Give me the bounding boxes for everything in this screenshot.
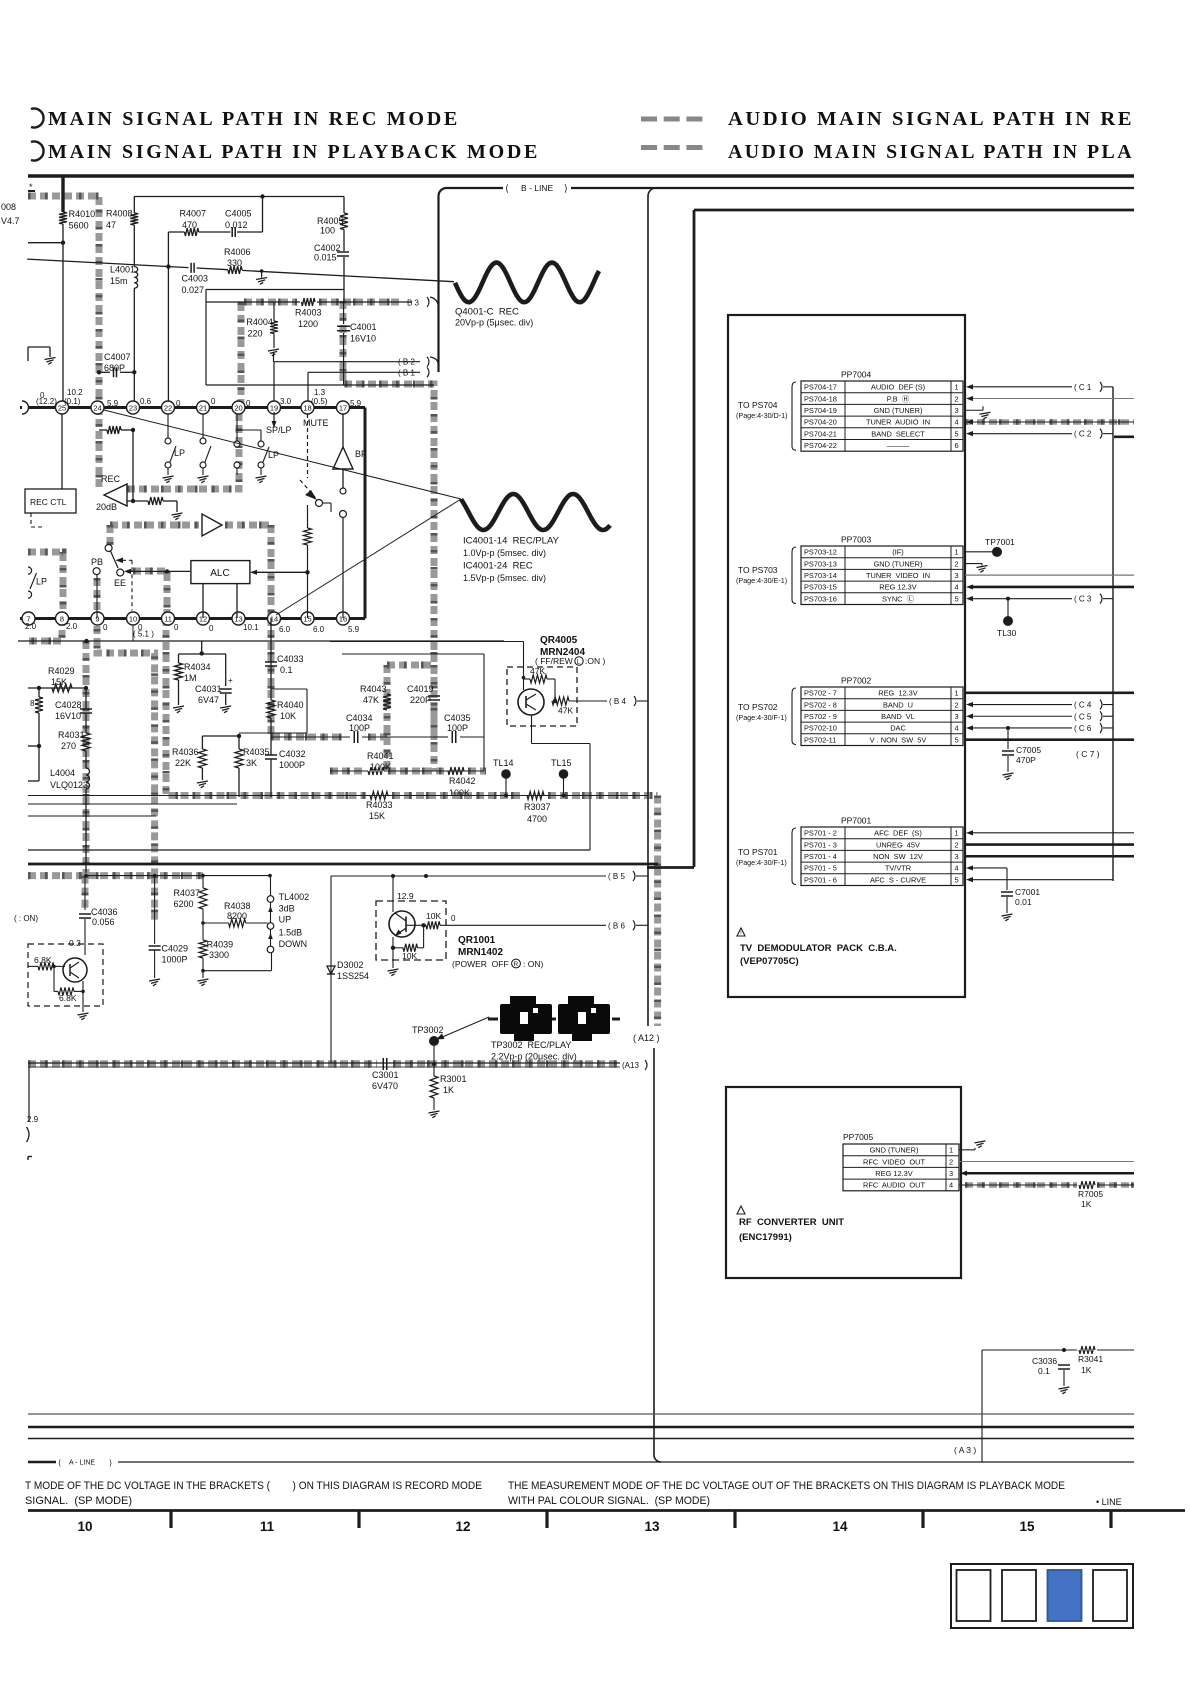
PP7003 pin5 wire to C3 (966, 596, 973, 601)
resistor R4038 (203, 922, 229, 924)
audio path halftone: EE wire to pin11 (133, 571, 167, 618)
PB circle and label (93, 568, 100, 575)
wire B5 (331, 875, 606, 877)
svg-text:1: 1 (955, 689, 959, 698)
wire mute switch to pin16 (342, 517, 344, 618)
svg-text:TL14: TL14 (493, 758, 514, 768)
svg-text:IC4001-24 REC: IC4001-24 REC (463, 561, 533, 572)
svg-text:B 3: B 3 (407, 299, 420, 308)
svg-text:0: 0 (174, 623, 179, 632)
QR1001 10K base resistor (406, 924, 426, 926)
PP7005 pin2 fine wire (959, 1161, 1134, 1163)
ALC box (191, 561, 250, 584)
svg-text:3: 3 (955, 852, 959, 861)
svg-text:( B 6: ( B 6 (608, 921, 625, 930)
svg-text:2.9: 2.9 (27, 1115, 39, 1124)
left column resistor R4029 (28, 687, 86, 689)
svg-text:PS702 - 9: PS702 - 9 (804, 712, 837, 721)
svg-text:( : ON): ( : ON) (14, 914, 38, 923)
svg-text:TP3002: TP3002 (412, 1025, 444, 1035)
svg-text:2.2Vp-p (20μsec. div): 2.2Vp-p (20μsec. div) (491, 1052, 577, 1062)
wire y232 R4007 C4005 row (168, 231, 184, 233)
svg-text:270: 270 (61, 741, 76, 751)
wire y1350 (982, 1349, 1077, 1351)
svg-text:SIGNAL. (SP MODE): SIGNAL. (SP MODE) (25, 1495, 132, 1507)
TL14 test point (501, 769, 511, 779)
PP7004 pin2 wire (966, 396, 973, 401)
svg-text:TP7001: TP7001 (985, 537, 1015, 547)
svg-text:PP7002: PP7002 (841, 676, 872, 686)
svg-text:2: 2 (949, 1157, 953, 1166)
svg-text:UP: UP (279, 914, 292, 924)
svg-text:5: 5 (955, 594, 959, 603)
resistor on pin15 column (307, 505, 309, 528)
svg-text:0.3: 0.3 (69, 938, 81, 948)
audio path halftone: pin14 column (268, 525, 275, 618)
svg-text:PS701 - 6: PS701 - 6 (804, 875, 837, 884)
svg-text:GND (TUNER): GND (TUNER) (870, 1146, 919, 1155)
svg-text:AUDIO MAIN SIGNAL PATH IN PLA: AUDIO MAIN SIGNAL PATH IN PLA (728, 142, 1134, 163)
IC4001 top pins (56, 401, 69, 414)
audio path halftone: A12 vertical (654, 796, 661, 1027)
svg-text:C4005: C4005 (225, 209, 252, 219)
ruler ticks (169, 1510, 172, 1528)
svg-text:10.1: 10.1 (243, 623, 259, 632)
svg-text:REC: REC (101, 474, 121, 484)
svg-text:L: L (577, 659, 581, 666)
resistor R4034 (175, 663, 183, 680)
svg-text:*: * (29, 182, 33, 192)
svg-text:IC4001-14 REC/PLAY: IC4001-14 REC/PLAY (463, 536, 560, 547)
D3002 diode (330, 876, 332, 1063)
svg-text:MAIN SIGNAL PATH IN REC MODE: MAIN SIGNAL PATH IN REC MODE (48, 109, 460, 130)
svg-text:⟨: ⟨ (505, 184, 509, 195)
svg-text:PS701 - 4: PS701 - 4 (804, 852, 837, 861)
svg-text:20: 20 (234, 404, 242, 413)
svg-text:PS704-17: PS704-17 (804, 383, 837, 392)
svg-text:C4002: C4002 (314, 243, 341, 253)
svg-text:C4001: C4001 (350, 322, 377, 332)
svg-text:1K: 1K (1081, 1199, 1092, 1209)
svg-text:R4041: R4041 (367, 751, 394, 761)
svg-text:16V10: 16V10 (350, 334, 376, 344)
svg-text:12.9: 12.9 (397, 891, 414, 901)
svg-text:C4031: C4031 (195, 684, 222, 694)
svg-text:REG 12.3V: REG 12.3V (879, 583, 916, 592)
svg-text:6: 6 (955, 441, 959, 450)
svg-text:0.1: 0.1 (280, 665, 293, 675)
svg-text:SYNC Ⓛ: SYNC Ⓛ (882, 594, 915, 603)
A-LINE label and rule (28, 1461, 56, 1464)
ground topleft near pin26 (28, 346, 50, 348)
svg-text:C4035: C4035 (444, 713, 471, 723)
svg-text:BAND U: BAND U (883, 700, 913, 709)
svg-text:PP7003: PP7003 (841, 535, 872, 545)
warning triangle RF (737, 1206, 745, 1214)
TP3002 test point (429, 1036, 439, 1046)
capacitor C4028 (80, 708, 92, 710)
svg-text:0: 0 (176, 399, 181, 408)
wire x239 up structure (271, 688, 307, 690)
resistor R4003 inline B3 (300, 296, 317, 307)
svg-text:C4032: C4032 (279, 749, 306, 759)
C3001 capacitor inline A13 (382, 1058, 384, 1070)
svg-text:PS704-18: PS704-18 (804, 394, 837, 403)
bracket B2 (274, 361, 421, 363)
RF converter box (726, 1087, 961, 1278)
svg-text:47K: 47K (558, 706, 573, 716)
audio path halftone: loop top (387, 662, 434, 669)
svg-text:330: 330 (227, 258, 242, 268)
svg-text:PP7004: PP7004 (841, 370, 872, 380)
audio path halftone: play switch stub (107, 525, 114, 545)
IC4001 bottom pins (22, 612, 35, 625)
wire y641 to QR4005 (330, 641, 524, 643)
capacitor C4001 on grey branch (343, 302, 345, 324)
svg-text:15K: 15K (369, 811, 385, 821)
svg-text:⟨: ⟨ (58, 1459, 61, 1468)
svg-text:C4029: C4029 (162, 944, 189, 954)
R7005 resistor inline (1079, 1181, 1095, 1189)
svg-text:PS703-14: PS703-14 (804, 571, 837, 580)
frame vertical v1 upper (648, 188, 656, 196)
svg-text:3: 3 (955, 406, 959, 415)
svg-text:(POWER OFF: (POWER OFF (452, 959, 509, 969)
svg-text:( A 3 ): ( A 3 ) (954, 1445, 976, 1455)
audio path halftone: pin24 to REC amp (96, 407, 103, 489)
audio path halftone: C4036 stub (82, 876, 89, 908)
svg-text:470P: 470P (1016, 755, 1036, 765)
TP3002 pointer to scope shot (440, 1017, 489, 1038)
wire y875 to TL4002 (86, 875, 270, 877)
resistor R4036 (198, 749, 206, 768)
legend symbol (clipped circle) REC row (31, 109, 44, 128)
svg-text:100K: 100K (449, 788, 470, 798)
svg-text:PS704-19: PS704-19 (804, 406, 837, 415)
capacitor C4031 electrolytic (225, 654, 227, 686)
audio path halftone: TUNER AUDIO IN wire (965, 419, 1134, 425)
svg-text:R4036: R4036 (172, 747, 199, 757)
svg-text:!: ! (740, 931, 741, 937)
audio path halftone: play path amp row (110, 522, 199, 529)
PP7002 pin1 thick wire (965, 692, 1134, 695)
svg-text:4: 4 (955, 864, 959, 873)
audio path halftone: pin11 down to long line (166, 618, 366, 796)
PP7001 pin3 thick wire (965, 855, 1134, 858)
svg-text:(12.2): (12.2) (36, 397, 57, 406)
svg-text:R4033: R4033 (366, 800, 393, 810)
bus line y850 thin (28, 849, 590, 851)
svg-text:10: 10 (129, 615, 137, 624)
wire y736 R4036 R4035 junction (202, 735, 239, 737)
QR4005 transistor (518, 689, 544, 715)
svg-text:1SS254: 1SS254 (337, 971, 369, 981)
TUNER VIDEO IN fine line (965, 574, 1134, 576)
svg-text:GND (TUNER): GND (TUNER) (874, 559, 923, 568)
bus line y864 thick (28, 863, 658, 866)
svg-text:———: ——— (887, 441, 910, 450)
TL30 test point (1007, 599, 1009, 621)
PP7003 pin3 fine wire (965, 574, 1134, 576)
LP switch pin20 pair (234, 441, 240, 447)
svg-text:8: 8 (30, 699, 35, 708)
svg-text:0.012: 0.012 (225, 220, 248, 230)
svg-text:AFC DEF (S): AFC DEF (S) (874, 829, 922, 838)
wire y804 (28, 803, 237, 805)
PP7004 pin4 wire black core (966, 419, 973, 424)
svg-text:R4003: R4003 (295, 308, 322, 318)
REC amp output resistor to ground (127, 500, 148, 502)
audio path halftone: pin8 above row (28, 552, 63, 612)
svg-text:RFC AUDIO OUT: RFC AUDIO OUT (863, 1181, 925, 1190)
play path switch circle (105, 545, 112, 552)
PP7001 pin5 wire to bus (966, 877, 973, 882)
TV demodulator box (728, 315, 965, 997)
R3041 resistor (1079, 1346, 1095, 1354)
svg-text:2: 2 (955, 700, 959, 709)
svg-text:TV DEMODULATOR PACK C.B.A.: TV DEMODULATOR PACK C.B.A. (740, 943, 897, 954)
legend underline rule (28, 174, 1134, 178)
PP7004 pin5 wire to C2 (966, 431, 973, 436)
audio path halftone: C4001 branch down (343, 301, 434, 737)
svg-text:L4001: L4001 (110, 265, 135, 275)
PP7002 pin4 wire to C6 (966, 725, 973, 730)
C7001 capacitor (1001, 891, 1013, 893)
wire EE to ALC (124, 569, 131, 574)
page color tabs (951, 1564, 1133, 1628)
svg-text:2: 2 (955, 840, 959, 849)
wire pin25 to REC CTL (61, 414, 63, 489)
R4033 resistor inline (370, 792, 388, 800)
svg-text:22K: 22K (175, 758, 191, 768)
LP switch bottom left inside IC (28, 567, 32, 574)
R4042 resistor inline (448, 767, 464, 775)
svg-text:PP7001: PP7001 (841, 816, 872, 826)
resistor R4008 (130, 213, 138, 225)
svg-text:0.1: 0.1 (1038, 1366, 1050, 1376)
svg-text:PS704-21: PS704-21 (804, 429, 837, 438)
frame vertical v1 lower (653, 1048, 655, 1455)
svg-text:MRN1402: MRN1402 (458, 947, 503, 958)
svg-text:100P: 100P (349, 723, 370, 733)
svg-text:0: 0 (211, 397, 216, 406)
QR1001 emitter ground (392, 948, 394, 968)
pin18 dashed mute line (307, 414, 309, 478)
svg-text:3: 3 (955, 712, 959, 721)
A13 line black core (28, 1062, 620, 1064)
wire QR4005 to B4 bracket (569, 700, 607, 702)
svg-text:• LINE: • LINE (1096, 1497, 1122, 1507)
svg-text:DOWN: DOWN (279, 939, 308, 949)
svg-text:5600: 5600 (69, 221, 89, 231)
IC4001 top pin row line (20, 406, 365, 409)
C4035 capacitor (434, 736, 448, 738)
svg-text:R4042: R4042 (449, 776, 476, 786)
svg-text:008: 008 (1, 202, 16, 212)
svg-text:0: 0 (103, 623, 108, 632)
QR4005 47K right resistor (552, 697, 569, 705)
capacitor C4032 (265, 754, 277, 756)
svg-text:0.6: 0.6 (140, 397, 152, 406)
svg-text:( FF/REW: ( FF/REW (535, 656, 573, 666)
svg-text:(Page:4-30/D-1): (Page:4-30/D-1) (736, 411, 788, 420)
long wire D3 with C4003 R4006 to waveform (27, 259, 188, 268)
svg-text:C4028: C4028 (55, 700, 82, 710)
svg-text:20Vp-p (5μsec. div): 20Vp-p (5μsec. div) (455, 318, 533, 328)
svg-text:1000P: 1000P (162, 955, 188, 965)
svg-text:(VEP07705C): (VEP07705C) (740, 956, 799, 967)
warning triangle demod (737, 928, 745, 936)
C4036 capacitor (84, 876, 86, 910)
resistor R4005 (343, 197, 345, 214)
svg-text:AFC S - CURVE: AFC S - CURVE (870, 875, 926, 884)
IC4001 right edge (364, 408, 367, 619)
wire y385 to pin18 (307, 385, 309, 401)
svg-text:Q4001-C REC: Q4001-C REC (455, 307, 519, 318)
C4029 capacitor (154, 876, 156, 944)
ALC outputs to pins 12 13 (202, 584, 204, 618)
audio path halftone: row y875 (28, 872, 203, 879)
svg-text:PS702-10: PS702-10 (804, 724, 837, 733)
svg-text:10: 10 (77, 1519, 92, 1534)
svg-text:V . NON SW 5V: V . NON SW 5V (870, 735, 927, 744)
B-LINE label (503, 181, 571, 194)
svg-text:TL15: TL15 (551, 758, 572, 768)
C3036 capacitor (1058, 1364, 1070, 1366)
inductor L4001 (134, 267, 137, 272)
svg-text:10K: 10K (426, 911, 441, 921)
svg-text:1.5dB: 1.5dB (279, 928, 303, 938)
svg-text:C4036: C4036 (91, 907, 118, 917)
svg-text:680P: 680P (104, 363, 125, 373)
svg-text:1.5Vp-p (5msec. div): 1.5Vp-p (5msec. div) (463, 573, 546, 583)
svg-text:220P: 220P (410, 695, 431, 705)
wire R4008 down to L4001 (133, 197, 135, 214)
wire y816 (28, 815, 156, 817)
svg-text:23: 23 (129, 404, 137, 413)
svg-text:( C 2: ( C 2 (1074, 430, 1092, 439)
pointer line waveform to pin14 (276, 499, 461, 615)
svg-text:TUNER AUDIO IN: TUNER AUDIO IN (866, 418, 930, 427)
svg-text:PS704-22: PS704-22 (804, 441, 837, 450)
svg-text:PS701 - 5: PS701 - 5 (804, 864, 837, 873)
wire x982 down to A-LINE (981, 1350, 983, 1462)
audio path halftone: pin9 jog (97, 578, 155, 876)
svg-text:PS703-15: PS703-15 (804, 583, 837, 592)
C4019 capacitor (428, 695, 440, 697)
svg-text:1K: 1K (1081, 1365, 1092, 1375)
svg-text:P.B Ⓗ: P.B Ⓗ (887, 394, 910, 403)
svg-text:VLQ0123: VLQ0123 (50, 780, 88, 790)
C4034 capacitor row (271, 736, 350, 738)
svg-text:( C 4: ( C 4 (1074, 701, 1092, 710)
TUNER AUDIO IN long grey underlying wire (965, 421, 1134, 423)
R4043 resistor (383, 694, 391, 710)
PP7003 pin4 thick wire (966, 584, 973, 589)
svg-text:2: 2 (955, 559, 959, 568)
svg-text:( C 7 ): ( C 7 ) (1076, 749, 1100, 759)
audio path halftone: pin14 below to C4034 row (271, 618, 344, 737)
svg-text:4: 4 (955, 583, 959, 592)
svg-text:TV/VTR: TV/VTR (885, 864, 911, 873)
svg-text:R4005: R4005 (317, 216, 344, 226)
QR4005 dashed box (507, 667, 577, 726)
svg-text:QR4005: QR4005 (540, 635, 578, 646)
left edge fragment bottom (27, 1157, 29, 1161)
top rail y196 (134, 196, 344, 198)
B-LINE wire (438, 188, 1134, 196)
svg-text:PS702 - 7: PS702 - 7 (804, 689, 837, 698)
bottom rule thin (28, 1438, 1134, 1440)
svg-text:1K: 1K (443, 1085, 454, 1095)
svg-text:NON SW 12V: NON SW 12V (873, 852, 923, 861)
QR1001 dashed box (376, 901, 446, 960)
QR4005 47K top resistor (530, 675, 547, 683)
svg-text:24: 24 (93, 404, 101, 413)
audio path halftone: RFC AUDIO OUT wire (965, 1182, 1077, 1188)
wire R4010 to pin25 (62, 224, 64, 407)
svg-text:4: 4 (955, 724, 959, 733)
svg-text:( C 5: ( C 5 (1074, 712, 1092, 721)
svg-text:REG 12.3V: REG 12.3V (875, 1169, 912, 1178)
svg-text:6.0: 6.0 (313, 625, 325, 634)
svg-text:10.2: 10.2 (67, 388, 83, 397)
svg-text:0.056: 0.056 (92, 917, 115, 927)
small resistor 6.8K column (35, 697, 43, 713)
svg-text:0: 0 (451, 914, 456, 923)
waveform W2 IC4001-14 (461, 494, 610, 530)
svg-text:17: 17 (339, 404, 347, 413)
svg-text:20dB: 20dB (96, 502, 117, 512)
svg-text:QR1001: QR1001 (458, 935, 496, 946)
resistor R4035 (238, 736, 240, 749)
svg-text:R4038: R4038 (224, 901, 251, 911)
PP7001 pin2 thick wire (965, 843, 1134, 846)
pointer line waveform to pin24 (104, 410, 461, 499)
PP7005 pin1 ground (959, 1149, 975, 1151)
svg-text:REG 12.3V: REG 12.3V (878, 689, 918, 698)
svg-text:UNREG 45V: UNREG 45V (876, 840, 920, 849)
svg-text:47K: 47K (530, 666, 545, 676)
svg-text:MAIN SIGNAL PATH IN PLAYBACK M: MAIN SIGNAL PATH IN PLAYBACK MODE (48, 142, 540, 163)
svg-text:1.3: 1.3 (314, 388, 326, 397)
svg-text:PB: PB (91, 557, 103, 567)
svg-text:4: 4 (949, 1181, 953, 1190)
wire x262 up to rail (262, 197, 264, 233)
svg-text:AUDIO DEF (S): AUDIO DEF (S) (871, 383, 925, 392)
switch network box top (206, 289, 344, 291)
svg-text:( B 4: ( B 4 (609, 697, 626, 706)
PP7003 pin2 ground (965, 563, 982, 565)
C7005 capacitor (1007, 728, 1009, 749)
PP7002 pin2 wire to C4 (966, 702, 973, 707)
svg-text:C4033: C4033 (277, 654, 304, 664)
wire y385 under C4001 (308, 384, 434, 386)
6.8K resistor feedback (58, 987, 74, 995)
svg-text:R3001: R3001 (440, 1074, 467, 1084)
svg-text:13: 13 (234, 615, 242, 624)
svg-text:0.01: 0.01 (1015, 897, 1032, 907)
svg-text:( B 5: ( B 5 (608, 872, 625, 881)
C bus vertical (1112, 387, 1114, 881)
ground stub under R4006 (261, 271, 263, 278)
svg-text:(0.5): (0.5) (311, 397, 328, 406)
svg-text:19: 19 (270, 404, 278, 413)
svg-text:: ON): : ON) (523, 959, 543, 969)
wire stub below A13 left (28, 1067, 30, 1122)
svg-text:(A13: (A13 (622, 1061, 639, 1070)
svg-text:R4008: R4008 (106, 209, 133, 219)
